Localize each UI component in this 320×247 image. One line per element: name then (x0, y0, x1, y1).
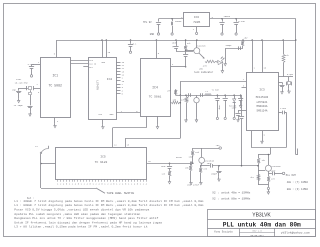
svg-text:L3 + 80 lilitan ,email 0,15mm: L3 + 80 lilitan ,email 0,15mm pada bekas… (14, 225, 147, 229)
svg-text:100uF: 100uF (175, 20, 182, 23)
svg-text:6.8pF: 6.8pF (287, 73, 294, 76)
svg-text:TC 5082: TC 5082 (49, 84, 62, 88)
svg-text:TAPE WHEL SWITCH: TAPE WHEL SWITCH (107, 192, 135, 195)
svg-text:7805: 7805 (193, 21, 200, 24)
svg-text:Rangkaian PLL ini untuk TX / 8: Rangkaian PLL ini untuk TX / 80m filter … (14, 216, 158, 220)
svg-text:uPC5821: uPC5821 (257, 101, 268, 104)
svg-text:3: 3 (243, 85, 244, 87)
svg-text:1.0uF: 1.0uF (280, 107, 287, 110)
svg-text:10uF: 10uF (207, 162, 213, 165)
svg-text:MC145106: MC145106 (256, 96, 269, 99)
svg-text:06-05-2012: 06-05-2012 (251, 234, 265, 237)
svg-text:IC6: IC6 (194, 16, 199, 19)
svg-text:TC 9122: TC 9122 (95, 161, 108, 164)
svg-text:lock indicator: lock indicator (194, 71, 214, 74)
svg-text:40m : (7) 10MHz: 40m : (7) 10MHz (287, 181, 309, 184)
svg-text:IC3: IC3 (259, 89, 265, 92)
svg-text:IC4: IC4 (152, 86, 158, 90)
svg-text:TC 5uH: TC 5uH (212, 89, 220, 92)
svg-text:L1 : 80Wdn 7 lilit digulung pa: L1 : 80Wdn 7 lilit digulung pada bekas C… (14, 203, 203, 207)
svg-text:10uF: 10uF (172, 42, 178, 45)
svg-text:Pusar VCO 0,5V hingga 5,0Vdc ,: Pusar VCO 0,5V hingga 5,0Vdc ,variasi LE… (14, 208, 149, 212)
svg-text:+5V: +5V (244, 37, 249, 40)
svg-text:X2 : untuk 40m = 15MHz: X2 : untuk 40m = 15MHz (212, 190, 250, 194)
svg-text:SM5124A: SM5124A (257, 110, 268, 113)
svg-text:10uF: 10uF (189, 156, 195, 159)
svg-text:47k: 47k (285, 54, 290, 57)
svg-text:IC2: IC2 (107, 78, 113, 81)
svg-text:10uF: 10uF (271, 170, 275, 172)
svg-text:10.240 MHz: 10.240 MHz (15, 82, 29, 85)
svg-text:TC 15pF: TC 15pF (14, 104, 24, 107)
svg-text:470: 470 (203, 64, 208, 67)
svg-text:100pF: 100pF (225, 44, 232, 47)
svg-text:+9V: +9V (216, 144, 221, 147)
svg-text:PLL OUT: PLL OUT (286, 174, 297, 177)
svg-text:IC1: IC1 (52, 74, 58, 78)
svg-text:80m : (3) 14MHz: 80m : (3) 14MHz (287, 188, 309, 191)
svg-text:yb3lvk@yahoo.com: yb3lvk@yahoo.com (281, 231, 310, 235)
svg-text:Ket :: Ket : (27, 197, 34, 200)
svg-text:100p: 100p (218, 105, 221, 111)
svg-text:L1 : 40Wdn 7 lilit digulung pa: L1 : 40Wdn 7 lilit digulung pada bekas C… (14, 199, 203, 203)
svg-text:XTAL: XTAL (16, 78, 22, 81)
svg-text:0.1uF: 0.1uF (238, 20, 245, 23)
svg-text:Yono Sucipto: Yono Sucipto (214, 229, 233, 233)
svg-text:X2 : untuk 80m = 19MHz: X2 : untuk 80m = 19MHz (212, 197, 250, 201)
svg-text:MCL65: MCL65 (176, 156, 183, 159)
svg-text:LS7470: LS7470 (96, 81, 99, 91)
svg-text:PLL untuk 40m dan 80m: PLL untuk 40m dan 80m (223, 221, 301, 228)
svg-text:IC5: IC5 (100, 156, 106, 159)
svg-text:Apabila PLL sudah mengunci ,ma: Apabila PLL sudah mengunci ,maka LED aka… (14, 212, 140, 216)
svg-text:TC 5081: TC 5081 (149, 96, 162, 99)
svg-text:YB3LVK: YB3LVK (252, 213, 271, 219)
svg-text:2SC1815: 2SC1815 (196, 44, 206, 47)
svg-text:GND: GND (150, 33, 155, 36)
svg-text:100pF: 100pF (211, 172, 218, 175)
svg-text:MN6040A: MN6040A (257, 105, 268, 108)
svg-text:2SC1815: 2SC1815 (271, 165, 281, 168)
svg-text:Untuk IF frekuensi lain dicapa: Untuk IF frekuensi lain dicapai dan deng… (14, 220, 162, 224)
svg-text:10uF: 10uF (232, 107, 238, 110)
svg-text:10uF: 10uF (161, 165, 166, 168)
svg-text:10uF 470uF: 10uF 470uF (187, 183, 200, 186)
svg-text:TPs 9V: TPs 9V (143, 21, 152, 24)
svg-text:Rev 1.0: Rev 1.0 (252, 230, 262, 233)
svg-text:100uF: 100uF (224, 15, 231, 18)
